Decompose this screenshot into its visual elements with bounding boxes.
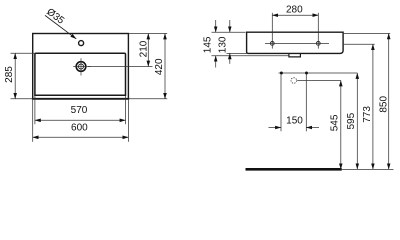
svg-text:850: 850 (379, 96, 390, 113)
dim 600 extension right (127, 99, 129, 142)
svg-text:545: 545 (330, 114, 341, 131)
dim 145/130 top extension (212, 31, 246, 33)
svg-text:Ø35: Ø35 (44, 7, 66, 27)
connection dot right (305, 72, 308, 75)
svg-text:773: 773 (362, 106, 373, 123)
dim 130 lower arrow (229, 53, 231, 63)
drain crosshair vertical (80, 58, 82, 75)
svg-text:285: 285 (4, 66, 15, 83)
svg-text:280: 280 (286, 5, 303, 16)
dim 285 line (14, 53, 16, 99)
dim 600 extension left (32, 99, 34, 142)
dim 545 line (340, 81, 342, 170)
dim 145 bottom extension (212, 55, 289, 57)
trap outlet dashed circle (291, 78, 297, 84)
dim 145 upper arrow (215, 20, 217, 32)
dim 420 bottom extension (129, 98, 167, 100)
svg-text:600: 600 (71, 122, 88, 133)
dim 773 extension (344, 43, 375, 45)
basin outer bottom thick edge (32, 98, 129, 100)
dim 570 extension right (125, 96, 127, 124)
drain inner circle (79, 64, 84, 69)
dim top extension line right (129, 33, 167, 35)
svg-text:570: 570 (71, 105, 88, 116)
drain boss step under slab (289, 54, 301, 57)
basin inner bowl rectangle (35, 53, 126, 95)
svg-text:130: 130 (217, 36, 228, 53)
drain crosshair horizontal (73, 66, 90, 68)
dim 570 line (35, 119, 126, 121)
dim 130 upper arrow (229, 20, 231, 32)
centerline through fixing holes (265, 42, 329, 44)
dim 280 line (272, 14, 318, 16)
svg-text:150: 150 (286, 115, 303, 126)
fixing hole right (316, 42, 320, 46)
dim 210 line (147, 34, 149, 67)
fixing hole left (270, 42, 274, 46)
dim 150 right arrow (306, 127, 319, 129)
svg-text:210: 210 (139, 40, 150, 57)
dim 600 line (33, 136, 129, 138)
dim 420 line (164, 34, 166, 99)
connection dot left (280, 72, 283, 75)
trap extension line (297, 80, 341, 82)
floor line thick (246, 168, 342, 171)
dim 285 extension bottom (11, 98, 34, 100)
basin front slab outline (247, 32, 344, 53)
basin outer rectangle (33, 34, 129, 99)
dim 280 extension right (317, 13, 319, 49)
dim 150 left arrow (269, 127, 282, 129)
dim 570 extension left (34, 96, 36, 124)
dim 285 extension top (11, 52, 35, 54)
svg-text:595: 595 (346, 112, 357, 129)
dim 773 line (372, 44, 374, 169)
dim 150 extension right (305, 75, 307, 132)
dim 150 extension left (280, 75, 282, 132)
dim 130 bottom extension (227, 52, 249, 54)
dim 595 line (356, 73, 358, 169)
dim 210 bottom extension from drain (88, 66, 153, 68)
water connection line (279, 72, 358, 74)
dim 850 extension (344, 32, 390, 34)
svg-text:420: 420 (154, 58, 165, 75)
svg-text:145: 145 (202, 36, 213, 53)
dim 145 lower arrow (215, 56, 217, 68)
drain outer circle (76, 62, 86, 72)
dim 850 line (388, 33, 390, 169)
Ø35 leader arrow (45, 15, 76, 38)
floor line thin (342, 168, 394, 170)
tap hole circle (79, 41, 84, 46)
dim 280 extension left (271, 13, 273, 49)
